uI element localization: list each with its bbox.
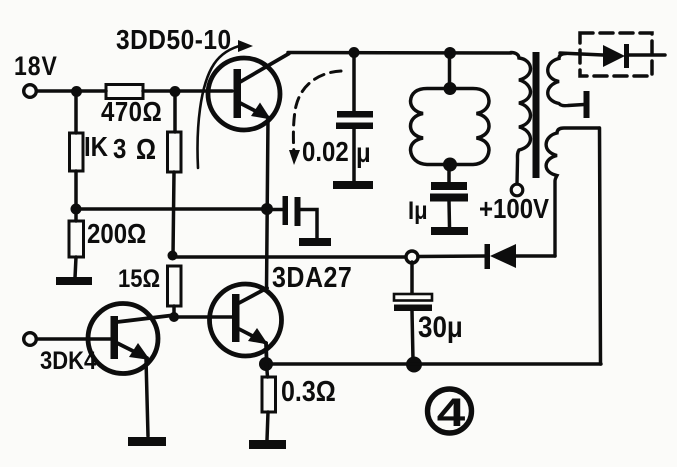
wire Q2 base: [179, 315, 232, 319]
wire right riser: [600, 128, 601, 364]
node junction 18V/1K: [71, 86, 82, 97]
svg-text:18V: 18V: [14, 53, 58, 82]
wire 3ohm drop: [173, 97, 177, 132]
transformer core bar: [533, 52, 540, 178]
ground under 200ohm: [56, 277, 92, 285]
wire coupling cap to ground: [301, 210, 318, 239]
resistor 200ohm: [69, 220, 146, 257]
svg-text:3: 3: [113, 135, 126, 165]
transformer secondary top winding: [548, 54, 584, 106]
capacitor 30u electrolytic: [394, 294, 432, 311]
node junction 15ohm top: [168, 251, 178, 261]
inductor tank coil L: [411, 89, 490, 165]
wire 30u to rail: [412, 311, 413, 360]
node junction Q2 emitter: [259, 357, 273, 371]
node tank top: [444, 82, 457, 95]
wire top rail: [288, 51, 511, 55]
wire top to tank: [448, 53, 452, 85]
wire Q1 emitter down to Q2 collector: [267, 118, 269, 290]
wire bottom rail: [266, 362, 601, 365]
terminal +100V open circle: [511, 184, 523, 196]
wire node to 1K: [74, 97, 78, 133]
label 0.02u: [302, 138, 371, 169]
wire rectifier feed y256: [418, 254, 486, 258]
ground coupling cap: [299, 238, 331, 246]
diode D1 in box: [603, 44, 629, 68]
wire 0.3ohm to ground: [267, 412, 268, 440]
wire Q3 emitter to ground: [146, 359, 148, 436]
figure number circled 4: [428, 389, 472, 435]
dashed box limiter: [580, 33, 652, 76]
svg-text:3DA27: 3DA27: [272, 261, 352, 293]
resistor 15ohm: [118, 266, 181, 306]
wire 0.02u to bar: [352, 129, 356, 182]
svg-text:IK: IK: [84, 133, 108, 163]
node junction top 0.02u: [349, 47, 360, 58]
wire 1K to node: [74, 171, 78, 209]
node junction 1K/200: [71, 204, 82, 215]
wire 30u branch: [410, 262, 414, 295]
node junction 470/3ohm: [170, 86, 181, 97]
node tank bottom: [443, 158, 457, 172]
terminal input open circle: [24, 333, 37, 346]
wire tank to 1u: [447, 164, 451, 182]
svg-text:200Ω: 200Ω: [87, 220, 146, 250]
svg-text:15Ω: 15Ω: [118, 266, 160, 294]
resistor 1K: [70, 133, 109, 171]
terminal 18V input: [24, 85, 37, 98]
transistor Q2 3DA27: [210, 284, 282, 358]
ground under Q3: [128, 437, 166, 446]
wire 18V to R 470: [37, 89, 106, 93]
resistor 3ohm: [113, 132, 181, 172]
wire 3ohm to 15ohm: [173, 172, 174, 256]
transformer secondary lower winding: [546, 128, 599, 256]
wire 15ohm to base node: [172, 306, 176, 313]
diode D2 rectifier: [485, 244, 556, 269]
node junction bottom rail: [406, 357, 422, 373]
svg-text:Ω: Ω: [136, 133, 156, 165]
svg-text:Iμ: Iμ: [408, 198, 428, 226]
svg-text:+100V: +100V: [479, 195, 550, 225]
svg-text:30μ: 30μ: [418, 310, 463, 343]
terminator T-bar: [584, 91, 590, 118]
capacitor coupling C: [283, 196, 301, 226]
wire emitter to 0.3ohm: [267, 364, 268, 377]
ground bar 0.02u: [333, 181, 373, 189]
wire R470 to Q1 base: [143, 89, 232, 93]
svg-text:0.3Ω: 0.3Ω: [281, 375, 336, 407]
wire secondary top to diode box: [560, 53, 603, 55]
resistor 0.3ohm: [262, 375, 336, 412]
node junction top tank: [444, 47, 456, 59]
wire feedback y257: [173, 255, 407, 259]
wire 1u to ground: [447, 201, 451, 227]
transformer T1 primary winding: [511, 53, 530, 185]
transistor Q1 3DD50-10: [208, 54, 289, 131]
capacitor 0.02u: [336, 111, 373, 129]
wire diode box out: [629, 53, 665, 57]
wire top to 0.02u: [352, 53, 356, 112]
wire node to 200ohm: [74, 214, 78, 221]
node open feedback: [406, 251, 418, 263]
wire node to coupling cap: [267, 208, 283, 212]
wire 200ohm to ground: [75, 257, 76, 278]
svg-text:3DD50-10: 3DD50-10: [116, 23, 232, 55]
wire bias rail y209: [76, 207, 267, 211]
node junction Q2 base: [169, 312, 179, 322]
transistor Q3 3DK4: [88, 304, 171, 374]
dashed feedback arc: [289, 71, 341, 165]
svg-text:μ: μ: [356, 139, 371, 169]
node junction emitter/cap: [261, 203, 273, 215]
svg-text:4: 4: [437, 389, 466, 434]
ground under 0.3ohm: [249, 440, 286, 449]
svg-text:470Ω: 470Ω: [101, 98, 162, 128]
resistor 470ohm: [101, 85, 162, 128]
capacitor 1u: [430, 182, 468, 202]
ground bar 1u: [431, 227, 468, 235]
svg-text:3DK4: 3DK4: [40, 348, 97, 376]
wire input to Q3 base: [37, 337, 111, 341]
leader arrow from label to Q1: [198, 40, 253, 168]
svg-text:0.02: 0.02: [302, 138, 349, 168]
